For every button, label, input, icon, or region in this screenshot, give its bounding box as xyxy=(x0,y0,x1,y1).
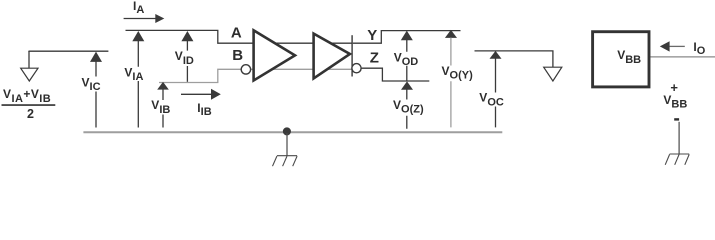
svg-text:+: + xyxy=(670,80,678,95)
wire: common-mode reference stub xyxy=(29,50,108,53)
box VBB xyxy=(593,32,649,87)
arrow IO xyxy=(660,41,670,51)
svg-text:A: A xyxy=(231,25,242,42)
ground (centre) xyxy=(273,156,298,167)
wire: dot to ground xyxy=(286,133,288,156)
buffer U2 xyxy=(314,34,350,79)
buffer U1 xyxy=(254,30,295,80)
node: reference open triangle (right) xyxy=(544,67,562,81)
arrow IIB current xyxy=(181,93,212,95)
node: reference open triangle (left) xyxy=(21,68,38,81)
arrow VID xyxy=(181,31,193,41)
junction dot xyxy=(283,127,291,135)
arrow VIB xyxy=(157,82,169,90)
svg-text:B: B xyxy=(232,47,243,64)
wire: ground rail (grey) xyxy=(83,131,502,133)
wire: B net (grey) xyxy=(159,69,352,82)
output bar U2 xyxy=(351,35,353,76)
arrow VIC xyxy=(90,52,102,62)
svg-text:Z: Z xyxy=(370,50,379,67)
arrow VOD xyxy=(401,31,413,41)
wire: A net top xyxy=(126,30,353,43)
arrow VOC xyxy=(490,51,502,59)
arrow VO(Y) xyxy=(445,30,457,38)
output bubble U2 xyxy=(352,64,361,73)
arrow VIA xyxy=(132,31,144,41)
arrow IA current xyxy=(124,18,156,20)
label minus xyxy=(674,118,679,120)
wire: Z net xyxy=(361,68,429,81)
input bubble U1 xyxy=(241,65,250,74)
ground (right) xyxy=(665,154,689,165)
wire: Y net xyxy=(353,31,461,44)
arrow VO(Z) xyxy=(401,81,413,89)
wire: drop to reference triangle xyxy=(28,51,30,68)
fraction bar xyxy=(2,104,56,106)
svg-text:2: 2 xyxy=(27,107,34,121)
wire: VOC stub xyxy=(475,51,553,67)
svg-text:Y: Y xyxy=(367,27,377,44)
wire: IO xyxy=(651,56,715,58)
wire: VBB to ground xyxy=(678,122,680,154)
